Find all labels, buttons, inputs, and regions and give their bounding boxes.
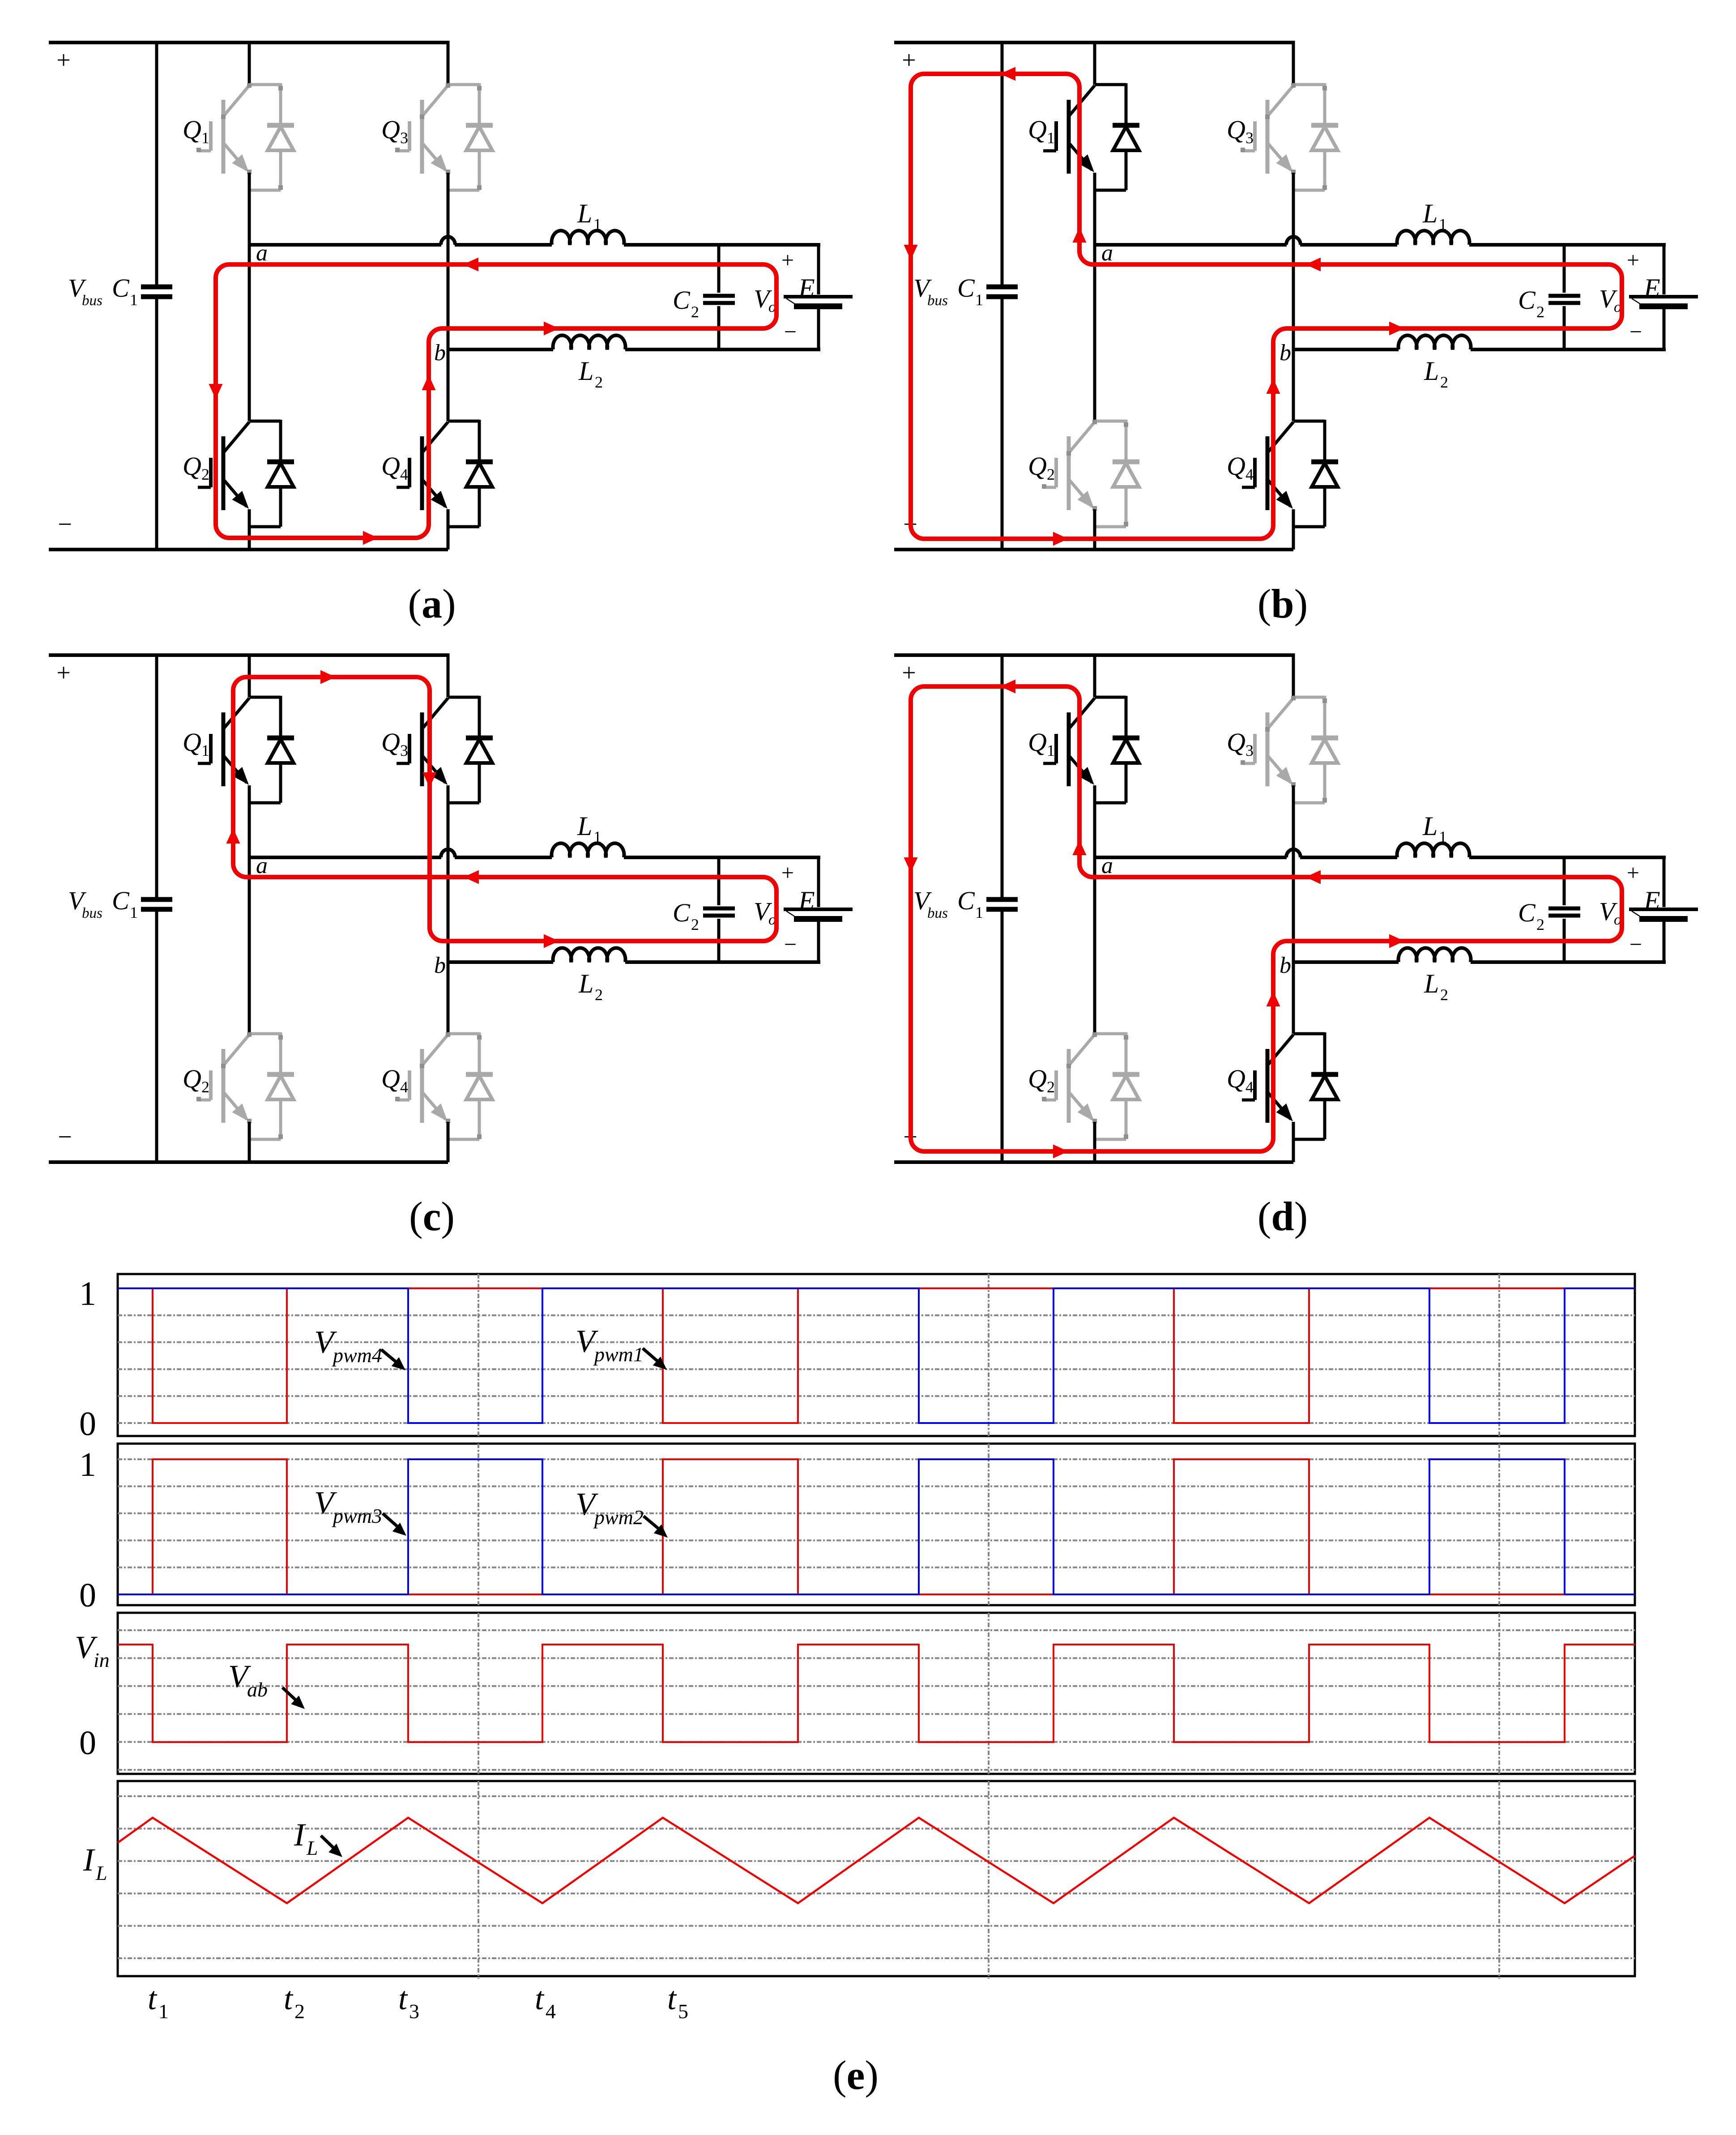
svg-text:1: 1: [1439, 215, 1447, 233]
transistor Q4 gate lead: [397, 1099, 409, 1102]
capacitor C2: [1548, 907, 1580, 911]
waveform Vpwm4 (blue): [118, 1288, 1635, 1423]
transistor Q3 diode cathode bar: [466, 736, 493, 741]
wire Q3 emitter through node b: [447, 173, 450, 421]
svg-text:4: 4: [1245, 465, 1254, 483]
svg-text:1: 1: [158, 2000, 169, 2023]
transistor Q3 gate lead: [1242, 762, 1255, 765]
inductor L2: [1399, 948, 1471, 962]
transistor Q3 diode wire upper: [1323, 83, 1327, 126]
wire C2 top: [1563, 245, 1566, 293]
svg-text:I: I: [83, 1842, 95, 1878]
wire Q2 collector stub: [1093, 857, 1096, 1034]
inductor L2: [553, 335, 626, 349]
transistor Q1 emitter arrowhead: [1078, 154, 1095, 172]
subplot3 vertical gridlines: [478, 1613, 479, 1774]
transistor Q3 diode bottom jog: [1293, 801, 1325, 805]
svg-text:E: E: [1643, 886, 1660, 916]
transistor Q4 diode bottom jog: [448, 1138, 479, 1141]
transistor Q4 collector jog: [1293, 1032, 1325, 1036]
transistor Q2 diode bottom jog: [249, 1138, 281, 1141]
transistor Q2 collector jog: [1095, 1032, 1126, 1036]
current arrow (c) right on top: [320, 670, 336, 684]
svg-text:3: 3: [409, 2000, 419, 2023]
current arrow (b) up through Q4: [1267, 379, 1280, 394]
transistor Q2 gate bar: [209, 1070, 213, 1100]
transistor Q1 diode wire upper: [279, 83, 282, 126]
wire hop over Q3 leg: [1286, 237, 1301, 245]
current arrow (c) up through Q1: [226, 828, 240, 844]
pointer arrow IL: [321, 1836, 335, 1849]
svg-text:E: E: [1643, 273, 1660, 303]
svg-text:1: 1: [130, 291, 138, 309]
current arrow (a) up through Q4: [422, 375, 436, 390]
current arrow (b) right on bottom: [1053, 532, 1068, 546]
svg-text:2: 2: [1536, 916, 1544, 933]
svg-text:(a): (a): [408, 581, 456, 626]
transistor Q2 emitter arrowhead: [1078, 1104, 1095, 1121]
wire Q1 drain stub: [1093, 41, 1096, 85]
transistor Q3 diode triangle: [1312, 739, 1338, 763]
capacitor C1: [986, 897, 1018, 902]
svg-text:Q: Q: [1227, 115, 1245, 144]
transistor Q2 emitter slant: [223, 479, 247, 507]
svg-text:2: 2: [1047, 465, 1055, 483]
wire node b to L2: [448, 348, 553, 351]
wire Q1-emitter to node a: [1093, 173, 1096, 245]
transistor Q2 diode wire lower: [1125, 1099, 1128, 1139]
wire Q1 drain stub: [248, 653, 251, 697]
svg-text:3: 3: [1245, 741, 1254, 759]
svg-text:2: 2: [691, 303, 699, 321]
transistor Q1 diode bottom jog: [1095, 801, 1126, 805]
battery E negative plate: [794, 303, 842, 309]
svg-text:pwm3: pwm3: [332, 1504, 382, 1527]
current arrow (a) right on node-b line: [544, 322, 559, 336]
current arrow (d) left on top: [1000, 680, 1015, 694]
capacitor C1: [141, 285, 172, 290]
svg-text:+: +: [56, 659, 71, 687]
transistor Q3 diode cathode bar: [466, 123, 493, 128]
transistor Q3 gate lead: [397, 149, 409, 153]
transistor Q1 emitter slant: [1069, 755, 1092, 783]
current arrow (d) down left side: [904, 857, 918, 873]
transistor Q4 diode wire upper: [1323, 1032, 1327, 1075]
waveform IL (red triangle): [118, 1818, 1635, 1903]
transistor Q2 diode wire lower: [1125, 487, 1128, 527]
wire C2 bottom: [717, 919, 721, 962]
transistor Q3 gate lead: [397, 762, 409, 765]
transistor Q2 joint dots: [1092, 1032, 1097, 1037]
svg-text:Q: Q: [183, 115, 201, 144]
transistor Q3 joint dots: [1291, 696, 1296, 700]
wire battery top lead: [1663, 243, 1666, 294]
transistor Q4 body bar: [420, 1049, 424, 1123]
wire hop to L1: [1300, 856, 1397, 859]
wire Q3 drain stub: [447, 653, 450, 697]
transistor Q1 diode wire upper: [279, 696, 282, 738]
transistor Q2 collector jog: [1095, 420, 1126, 423]
transistor Q2 joint dots: [1092, 420, 1097, 424]
svg-text:(c): (c): [409, 1193, 455, 1239]
svg-text:L: L: [1422, 199, 1437, 228]
svg-text:L: L: [1424, 969, 1439, 998]
wire Q1 drain stub: [248, 41, 251, 85]
transistor Q2 gate lead: [1043, 486, 1056, 489]
svg-text:Q: Q: [381, 728, 400, 757]
svg-text:Q: Q: [1227, 1064, 1245, 1093]
transistor Q1 body bar: [1067, 712, 1071, 786]
wire Q2 emitter to bottom bus: [248, 509, 251, 550]
transistor Q2 collector slant: [1069, 1035, 1095, 1065]
wire node b to L2: [448, 960, 553, 964]
inductor L1: [1397, 843, 1470, 857]
transistor Q1 diode triangle: [1113, 739, 1139, 763]
wire L1 to battery corner: [624, 856, 820, 859]
transistor Q2 emitter arrowhead: [232, 491, 249, 509]
svg-text:Q: Q: [381, 1064, 400, 1093]
wire L1 to battery corner: [1469, 856, 1666, 859]
subplot2 gridlines: [118, 1458, 1635, 1460]
wire Q2 emitter to bottom bus: [1093, 509, 1096, 550]
current arrow (c) right on node-b line: [544, 934, 559, 948]
transistor Q2 diode wire lower: [279, 1099, 282, 1139]
wire bottom bus: [894, 548, 1293, 551]
subplot3 gridlines: [118, 1629, 1635, 1631]
transistor Q1 emitter arrowhead: [1078, 767, 1095, 785]
wire hop over Q3 leg: [441, 237, 455, 245]
current arrow (a) left on node-a line: [463, 258, 478, 272]
battery E positive plate: [1629, 295, 1698, 298]
transistor Q3 gate bar: [408, 121, 411, 151]
transistor Q3 diode bottom jog: [1293, 189, 1325, 192]
svg-text:1: 1: [201, 129, 209, 147]
svg-text:+: +: [902, 659, 916, 687]
transistor Q3 emitter arrowhead: [1276, 154, 1293, 172]
wire bottom bus: [49, 548, 448, 551]
wire C2 bottom: [1563, 306, 1566, 349]
svg-text:1: 1: [975, 291, 983, 309]
current arrow (d) right on bottom: [1053, 1145, 1068, 1159]
svg-text:pwm1: pwm1: [593, 1343, 644, 1366]
wire hop to L1: [1300, 243, 1397, 247]
inductor L2: [1399, 335, 1471, 349]
wire C1 column upper: [1001, 653, 1004, 897]
transistor Q2 emitter slant: [1069, 1092, 1092, 1119]
transistor Q3 diode wire upper: [478, 696, 481, 738]
wire top bus: [49, 41, 448, 44]
transistor Q2 gate bar: [1054, 458, 1058, 487]
transistor Q4 diode wire upper: [478, 420, 481, 462]
transistor Q1 gate bar: [1054, 734, 1058, 763]
transistor Q1 joint dots: [247, 83, 252, 88]
transistor Q1 diode triangle: [268, 127, 294, 150]
transistor Q4 collector jog: [448, 420, 479, 423]
battery E positive plate: [784, 908, 853, 911]
transistor Q1 diode triangle: [1113, 127, 1139, 150]
transistor Q4 collector jog: [448, 1032, 479, 1036]
transistor Q4 diode bottom jog: [448, 525, 479, 528]
transistor Q1 collector jog: [1095, 696, 1126, 699]
wire L2 to battery: [1471, 348, 1666, 351]
inductor L1: [552, 230, 624, 245]
transistor Q1 gate lead: [1043, 762, 1056, 765]
transistor Q1 collector jog: [1095, 83, 1126, 86]
waveform Vpwm2 (red): [118, 1459, 1635, 1594]
capacitor C1: [141, 897, 172, 902]
transistor Q1 emitter slant: [223, 143, 247, 170]
wire hop to L1: [455, 243, 552, 247]
transistor Q4 diode triangle: [1312, 463, 1338, 487]
capacitor C1: [986, 285, 1018, 290]
svg-text:1: 1: [593, 828, 601, 846]
transistor Q3 emitter arrowhead: [431, 767, 448, 785]
transistor Q4 gate bar: [1253, 1070, 1257, 1100]
transistor Q3 gate bar: [1253, 734, 1257, 763]
current arrow (b) right on node-b line: [1389, 322, 1404, 336]
wire C1 column lower: [155, 299, 158, 551]
svg-text:0: 0: [79, 1405, 96, 1443]
wire C1 column upper: [1001, 41, 1004, 285]
transistor Q1 emitter arrowhead: [232, 767, 249, 785]
svg-text:C: C: [1518, 898, 1536, 927]
transistor Q3 diode wire lower: [478, 150, 481, 190]
current arrow (d) up through Q1: [1073, 840, 1087, 855]
wire Q4 emitter to bottom bus: [1292, 1122, 1295, 1162]
svg-text:L: L: [577, 199, 592, 228]
svg-text:b: b: [434, 340, 446, 366]
transistor Q3 collector jog: [1293, 696, 1325, 699]
waveform Vpwm1 (red): [118, 1288, 1635, 1423]
transistor Q4 diode wire upper: [478, 1032, 481, 1075]
svg-text:+: +: [781, 860, 794, 885]
battery E negative plate: [1639, 916, 1688, 922]
transistor Q4 diode cathode bar: [466, 1072, 493, 1077]
capacitor C2: [703, 907, 735, 911]
svg-text:5: 5: [678, 2000, 688, 2023]
wire node b to L2: [1293, 960, 1399, 964]
transistor Q3 collector jog: [1293, 83, 1325, 86]
transistor Q3 emitter arrowhead: [1276, 767, 1293, 785]
svg-text:4: 4: [1245, 1078, 1254, 1096]
transistor Q3 collector slant: [1267, 85, 1293, 116]
transistor Q3 collector jog: [448, 696, 479, 699]
wire C1 column upper: [155, 653, 158, 897]
wire L1 to battery corner: [1469, 243, 1666, 247]
transistor Q4 emitter slant: [1267, 1092, 1291, 1119]
transistor Q2 diode cathode bar: [1113, 1072, 1139, 1077]
wire hop to L1: [455, 856, 552, 859]
transistor Q2 body bar: [222, 436, 226, 510]
transistor Q4 emitter arrowhead: [431, 491, 448, 509]
svg-text:+: +: [1627, 860, 1639, 885]
svg-text:Q: Q: [1028, 1064, 1047, 1093]
subplot Vab frame: [118, 1613, 1635, 1774]
svg-text:2: 2: [201, 1078, 209, 1096]
transistor Q1 gate lead: [1043, 149, 1056, 153]
battery E positive plate: [1629, 908, 1698, 911]
transistor Q1 gate lead: [198, 762, 211, 765]
subplot1 vertical gridlines: [478, 1274, 479, 1436]
transistor Q2 diode triangle: [1113, 463, 1139, 487]
transistor Q2 diode wire upper: [1125, 420, 1128, 462]
transistor Q2 diode wire lower: [279, 487, 282, 527]
transistor Q3 emitter slant: [422, 143, 445, 170]
svg-text:−: −: [784, 932, 797, 957]
transistor Q4 emitter arrowhead: [1276, 1104, 1293, 1121]
transistor Q1 emitter slant: [1069, 143, 1092, 170]
transistor Q2 collector slant: [223, 1035, 249, 1065]
transistor Q4 emitter slant: [422, 479, 445, 507]
current path (c): [233, 677, 776, 941]
subplot4 vertical gridlines: [478, 1781, 479, 1979]
svg-text:4: 4: [400, 465, 408, 483]
transistor Q4 diode wire lower: [478, 1099, 481, 1139]
transistor Q4 emitter arrowhead: [431, 1104, 448, 1121]
transistor Q4 diode wire lower: [1323, 487, 1327, 527]
current arrow (d) left on node-a line: [1305, 870, 1321, 884]
svg-text:1: 1: [201, 741, 209, 759]
pointer arrow Vpwm1: [643, 1348, 659, 1363]
transistor Q4 gate lead: [397, 486, 409, 489]
transistor Q2 emitter arrowhead: [232, 1104, 249, 1121]
transistor Q3 body bar: [420, 712, 424, 786]
wire hop over Q3 leg: [1286, 849, 1301, 857]
transistor Q4 gate lead: [1242, 486, 1255, 489]
subplot IL frame: [118, 1781, 1635, 1976]
transistor Q1 collector slant: [223, 85, 249, 116]
wire C2 top: [1563, 857, 1566, 905]
svg-text:(d): (d): [1258, 1193, 1308, 1239]
transistor Q2 gate lead: [1043, 1099, 1056, 1102]
svg-text:t: t: [148, 1981, 158, 2016]
wire Q4 emitter to bottom bus: [447, 1122, 450, 1162]
transistor Q3 diode triangle: [466, 739, 492, 763]
wire C1 column lower: [155, 912, 158, 1164]
wire node a to hop: [249, 856, 441, 859]
wire battery bottom lead: [1663, 922, 1666, 964]
svg-text:Q: Q: [183, 452, 201, 481]
inductor L2: [553, 948, 626, 962]
svg-text:Q: Q: [183, 728, 201, 757]
svg-text:bus: bus: [927, 905, 948, 921]
transistor Q1 gate bar: [209, 121, 213, 151]
transistor Q2 diode cathode bar: [1113, 460, 1139, 465]
transistor Q1 diode wire lower: [279, 150, 282, 190]
svg-text:bus: bus: [927, 293, 948, 309]
svg-text:L: L: [578, 969, 593, 998]
transistor Q4 diode bottom jog: [1293, 1138, 1325, 1141]
transistor Q4 diode triangle: [466, 1076, 492, 1099]
svg-text:1: 1: [1047, 129, 1055, 147]
wire battery bottom lead: [817, 309, 820, 351]
current arrow (a) down through Q2: [209, 384, 223, 399]
svg-text:b: b: [1280, 340, 1291, 366]
wire hop over Q3 leg: [441, 849, 455, 857]
transistor Q2 gate lead: [198, 1099, 211, 1102]
svg-text:2: 2: [595, 373, 603, 391]
transistor Q2 diode wire upper: [279, 1032, 282, 1075]
svg-text:C: C: [957, 273, 975, 303]
svg-text:Q: Q: [1028, 115, 1047, 144]
transistor Q3 diode cathode bar: [1311, 123, 1338, 128]
svg-text:t: t: [398, 1981, 408, 2016]
transistor Q2 diode bottom jog: [1095, 1138, 1126, 1141]
transistor Q4 body bar: [1266, 1049, 1270, 1123]
svg-text:1: 1: [130, 903, 138, 921]
transistor Q3 emitter slant: [1267, 143, 1291, 170]
transistor Q3 body bar: [1266, 100, 1270, 174]
svg-text:1: 1: [593, 215, 601, 233]
wire Q3 emitter through node b: [1292, 173, 1295, 421]
transistor Q3 joint dots: [446, 83, 450, 88]
transistor Q3 gate bar: [1253, 121, 1257, 151]
transistor Q3 diode bottom jog: [448, 189, 479, 192]
transistor Q3 emitter arrowhead: [431, 154, 448, 172]
wire battery top lead: [817, 856, 820, 907]
svg-text:Q: Q: [1227, 452, 1245, 481]
wire battery bottom lead: [1663, 309, 1666, 351]
transistor Q3 body bar: [1266, 712, 1270, 786]
battery plate tie line: [786, 911, 794, 916]
pointer arrow Vpwm2: [644, 1516, 660, 1530]
transistor Q2 body bar: [1067, 436, 1071, 510]
transistor Q4 diode cathode bar: [1311, 1072, 1338, 1077]
svg-text:I: I: [294, 1817, 306, 1853]
current path (d): [911, 686, 1622, 1151]
svg-text:2: 2: [1440, 986, 1448, 1004]
svg-text:E: E: [798, 886, 815, 916]
current arrow (c) down through Q3: [423, 772, 437, 788]
wire battery top lead: [817, 243, 820, 294]
transistor Q4 collector slant: [422, 422, 448, 453]
transistor Q4 diode cathode bar: [1311, 460, 1338, 465]
svg-text:bus: bus: [82, 905, 102, 921]
transistor Q1 gate bar: [209, 734, 213, 763]
current arrow (a) right on bottom: [363, 531, 378, 545]
svg-text:pwm2: pwm2: [593, 1506, 644, 1529]
transistor Q2 collector jog: [249, 420, 281, 423]
transistor Q2 collector slant: [1069, 422, 1095, 453]
transistor Q1 diode cathode bar: [1113, 736, 1139, 741]
transistor Q2 diode triangle: [268, 1076, 294, 1099]
transistor Q4 gate bar: [1253, 458, 1257, 487]
wire node a to hop: [249, 243, 441, 247]
pointer arrow Vpwm4: [381, 1350, 397, 1363]
transistor Q1 diode bottom jog: [1095, 189, 1126, 192]
current arrow (b) up through Q1: [1073, 227, 1087, 243]
subplot1 gridlines: [118, 1287, 1635, 1289]
svg-text:1: 1: [1439, 828, 1447, 846]
transistor Q1 body bar: [222, 712, 226, 786]
svg-text:Q: Q: [381, 115, 400, 144]
subplot Vpwm2/Vpwm3 frame: [118, 1444, 1635, 1605]
transistor Q1 diode cathode bar: [1113, 123, 1139, 128]
transistor Q1 body bar: [222, 100, 226, 174]
wire L2 to battery: [625, 348, 820, 351]
wire L1 to battery corner: [624, 243, 820, 247]
wire Q3 drain stub: [1292, 41, 1295, 85]
svg-text:4: 4: [400, 1078, 408, 1096]
svg-text:L: L: [1424, 356, 1439, 386]
transistor Q4 collector jog: [1293, 420, 1325, 423]
svg-text:1: 1: [975, 903, 983, 921]
wire top bus: [894, 653, 1293, 657]
transistor Q2 diode wire upper: [1125, 1032, 1128, 1075]
transistor Q3 collector slant: [1267, 698, 1293, 729]
transistor Q2 diode triangle: [268, 463, 294, 487]
inductor L1: [552, 843, 624, 857]
